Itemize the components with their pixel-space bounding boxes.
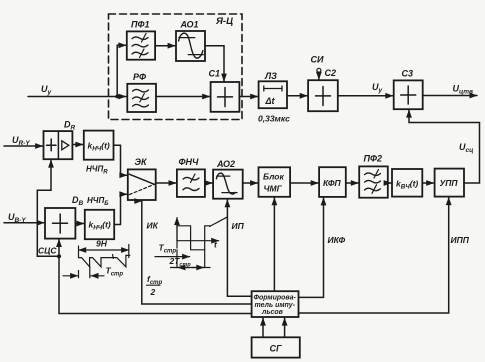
block ПФ2 bandpass filter <box>359 154 388 198</box>
svg-text:С3: С3 <box>402 69 414 79</box>
svg-text:тель импу-: тель импу- <box>255 302 296 309</box>
svg-text:СГ: СГ <box>270 344 282 354</box>
wire С1 to ЛЗ <box>239 96 257 98</box>
svg-text:fстр: fстр <box>147 274 163 286</box>
block АО1 amplitude limiter <box>176 20 205 62</box>
svg-text:ФНЧ: ФНЧ <box>179 157 200 167</box>
wire ПФ2 to kВЧ <box>388 182 391 184</box>
wire ЭК to ФНЧ <box>156 182 176 184</box>
svg-text:ПФ1: ПФ1 <box>131 20 150 30</box>
wire kНЧ R to ЭК <box>114 145 127 175</box>
svg-text:ИКФ: ИКФ <box>328 235 346 245</box>
wire Формирователь to Блок ЧМГ <box>273 198 275 291</box>
wire D_R to kНЧ R <box>72 144 83 146</box>
block ПФ1 bandpass filter <box>127 20 155 60</box>
wire D_B to kНЧ Б <box>75 223 84 225</box>
wire ИКФ from Формирователь to КФП <box>299 198 346 298</box>
block Формирователь импульсов pulse shaper <box>252 291 299 317</box>
svg-text:ЭК: ЭК <box>135 157 148 167</box>
svg-text:УПП: УПП <box>440 178 459 188</box>
wire ИПП from Формирователь to УПП <box>299 198 470 313</box>
svg-text:9Н: 9Н <box>96 239 108 249</box>
svg-text:DB: DB <box>72 195 84 207</box>
svg-text:льсов: льсов <box>261 309 284 316</box>
wire output Uцтв <box>423 84 477 96</box>
block D_B adder <box>45 195 84 239</box>
svg-text:kНЧ(t): kНЧ(t) <box>88 141 110 153</box>
wire АО1 to С1 <box>205 46 224 81</box>
wire ИП from Формирователь to АО2 <box>227 200 251 297</box>
svg-text:С1: С1 <box>209 69 221 79</box>
waveform 9Н sawtooth СЦС <box>63 239 130 278</box>
wire Uy input <box>28 84 126 97</box>
svg-text:АО1: АО1 <box>180 20 199 30</box>
block ФНЧ low-pass filter <box>177 157 205 197</box>
block Блок ЧМГ frequency modulator <box>259 167 291 197</box>
label fстр/2 <box>147 274 163 297</box>
node junction on Uy line <box>115 95 119 99</box>
block РФ notch filter <box>127 72 156 112</box>
wire С2 to С3 with label Uy <box>338 82 393 96</box>
svg-text:ИП: ИП <box>232 221 245 231</box>
svg-text:Uу: Uу <box>372 82 383 94</box>
wire РФ to С1 <box>156 96 210 98</box>
svg-text:АО2: АО2 <box>216 159 235 169</box>
svg-text:Тстр: Тстр <box>106 266 124 278</box>
wire СЦС to D_R <box>37 160 59 256</box>
wire U B-Y input <box>4 212 44 224</box>
svg-text:С2: С2 <box>325 68 337 78</box>
wire kНЧ Б to ЭК <box>114 194 127 224</box>
wire U R-Y input <box>4 135 43 147</box>
svg-text:Я-Ц: Я-Ц <box>215 16 233 27</box>
svg-text:0,33мкс: 0,33мкс <box>258 114 290 124</box>
block ЛЗ delay line <box>259 71 287 108</box>
block kНЧ(t) R low-frequency corrector <box>84 131 114 160</box>
svg-text:Формирова-: Формирова- <box>254 295 297 302</box>
svg-text:РФ: РФ <box>133 72 146 82</box>
block kВЧ(t) high-frequency corrector <box>392 169 422 197</box>
label СИ input <box>311 55 324 80</box>
wire ПФ1 to АО1 <box>155 45 175 47</box>
svg-text:Δt: Δt <box>265 96 276 106</box>
svg-text:UR-Y: UR-Y <box>12 135 30 147</box>
block УПП <box>435 169 464 197</box>
wire СГ to Формирователь left <box>262 318 264 337</box>
wire СЦС from Формирователь <box>59 256 252 313</box>
block СГ sync generator <box>252 337 300 357</box>
svg-text:Блок: Блок <box>263 172 284 182</box>
svg-text:Uу: Uу <box>41 84 52 96</box>
block С2 adder <box>308 68 338 111</box>
svg-text:ИПП: ИПП <box>451 235 470 245</box>
node СЦС junction <box>57 254 61 258</box>
svg-text:kНЧ(t): kНЧ(t) <box>89 220 111 232</box>
svg-text:ПФ2: ПФ2 <box>364 154 383 164</box>
svg-text:СИ: СИ <box>311 55 324 65</box>
block ЭК electronic commutator <box>128 157 156 200</box>
block С1 adder <box>209 69 240 112</box>
wire СЦС to D_B <box>58 240 60 257</box>
block АО2 amplitude limiter <box>213 159 243 199</box>
svg-text:2: 2 <box>150 287 156 297</box>
wire СГ to Формирователь right <box>284 318 286 337</box>
svg-text:КФП: КФП <box>323 178 342 188</box>
svg-text:DR: DR <box>64 120 76 132</box>
waveform ИП meander <box>155 217 227 268</box>
svg-text:ЛЗ: ЛЗ <box>264 71 277 81</box>
wire ЛЗ to С2 <box>287 95 307 97</box>
svg-text:НЧПБ: НЧПБ <box>87 196 109 207</box>
svg-text:НЧПR: НЧПR <box>86 165 108 176</box>
block D_R adder-amplifier <box>44 120 76 160</box>
wire feedback УПП to С3 with label Uсц <box>409 110 480 183</box>
block КФП <box>319 167 346 197</box>
svg-text:ЧМГ: ЧМГ <box>264 184 283 194</box>
svg-text:Uсц: Uсц <box>459 142 473 154</box>
block kНЧ(t) Б low-frequency corrector <box>85 210 114 239</box>
svg-text:Тстр: Тстр <box>159 243 177 255</box>
wire Блок ЧМГ to КФП <box>290 182 318 184</box>
wire ФНЧ to АО2 <box>205 182 212 184</box>
svg-text:kВЧ(t): kВЧ(t) <box>396 179 418 191</box>
wire kВЧ to УПП <box>422 182 433 184</box>
wire junction to ПФ1 <box>117 45 126 96</box>
wire КФП to ПФ2 <box>346 182 359 184</box>
svg-text:ИК: ИК <box>147 221 159 231</box>
svg-text:Uцтв: Uцтв <box>453 84 473 96</box>
dashed enclosure Я-Ц <box>109 14 243 120</box>
wire АО2 to Блок ЧМГ <box>243 182 258 184</box>
svg-text:2Тстр: 2Тстр <box>169 256 192 268</box>
svg-text:СЦС: СЦС <box>38 246 57 256</box>
wire ИК from Формирователь to ЭК <box>142 201 252 304</box>
block С3 adder <box>394 69 423 110</box>
